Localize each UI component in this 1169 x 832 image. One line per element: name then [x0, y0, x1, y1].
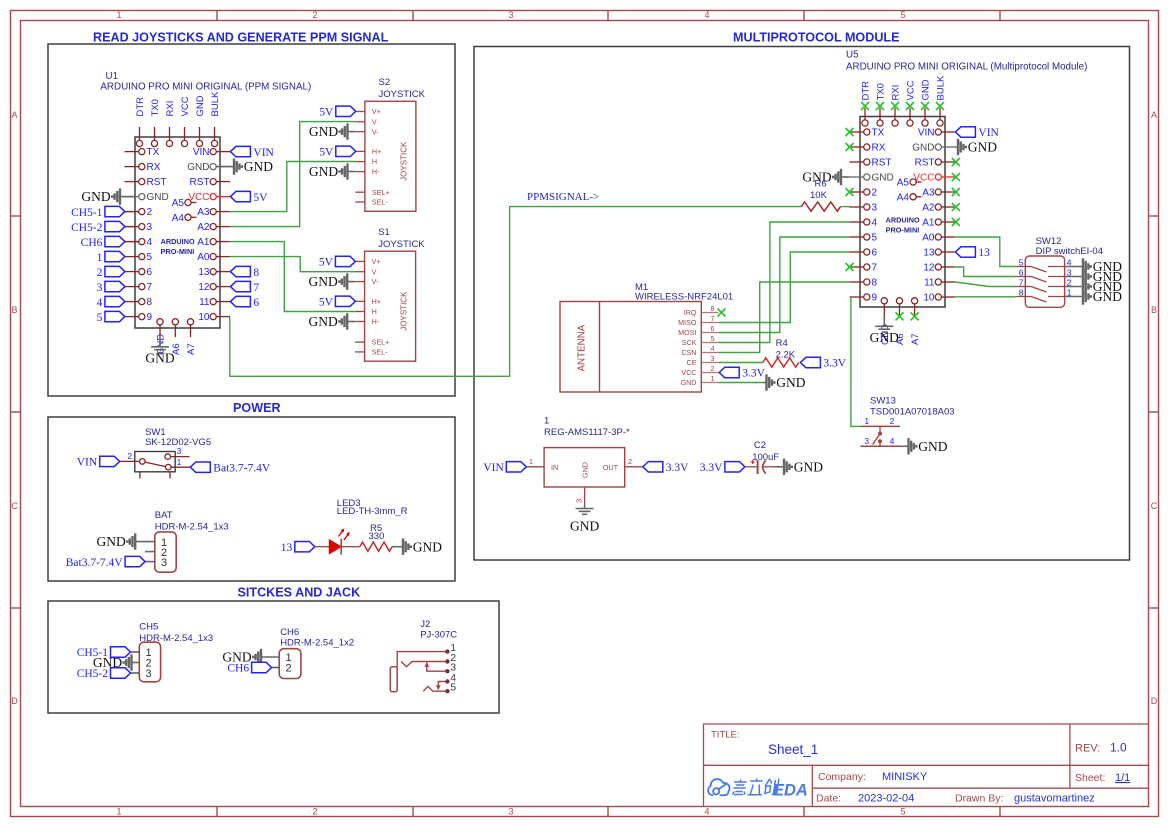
svg-text:V-: V-	[372, 127, 379, 136]
svg-text:5: 5	[450, 682, 456, 694]
svg-text:JOYSTICK: JOYSTICK	[399, 291, 408, 331]
svg-text:GND: GND	[581, 462, 590, 478]
no-connect marks U5 A6 A7	[896, 312, 904, 320]
svg-text:ANTENNA: ANTENNA	[577, 324, 588, 371]
svg-text:1: 1	[864, 416, 869, 426]
svg-text:3: 3	[508, 807, 513, 817]
switch SW1 body	[135, 452, 175, 472]
svg-text:A0: A0	[922, 233, 935, 244]
joystick S2 pins	[355, 111, 365, 113]
svg-text:4: 4	[711, 344, 715, 353]
svg-text:IRQ: IRQ	[684, 308, 697, 317]
svg-text:RST: RST	[872, 158, 892, 169]
ground flag at U1 pin GND (left)	[120, 196, 135, 198]
U5 bottom pins GND A6 A7	[881, 298, 887, 304]
svg-text:330: 330	[369, 531, 385, 542]
regulator pin 3 to ground	[584, 487, 586, 505]
net flag CH5-1	[125, 211, 139, 213]
svg-text:TSD001A07018A03: TSD001A07018A03	[870, 407, 955, 418]
svg-text:2: 2	[147, 207, 153, 218]
svg-text:1/1: 1/1	[1115, 772, 1130, 784]
svg-text:WIRELESS-NRF24L01: WIRELESS-NRF24L01	[635, 291, 733, 302]
svg-text:12: 12	[923, 263, 935, 274]
ground flag at BAT.1	[135, 541, 155, 543]
svg-text:PRO-MINI: PRO-MINI	[161, 247, 195, 256]
svg-text:GND: GND	[794, 459, 823, 474]
svg-text:Date:: Date:	[816, 793, 841, 805]
U1 pin A4	[191, 216, 197, 218]
net flag 3.3V at M1.VCC	[719, 367, 739, 377]
svg-text:3: 3	[508, 10, 513, 20]
svg-text:3: 3	[147, 222, 153, 233]
svg-text:HDR-M-2.54_1x3: HDR-M-2.54_1x3	[155, 522, 229, 533]
svg-text:MISO: MISO	[678, 318, 697, 327]
connector J2 sleeve	[390, 667, 397, 692]
svg-text:VIN: VIN	[483, 462, 504, 474]
svg-text:B: B	[1151, 305, 1157, 315]
svg-text:HDR-M-2.54_1x2: HDR-M-2.54_1x2	[280, 637, 354, 648]
svg-text:ARDUINO: ARDUINO	[161, 237, 195, 246]
ground flag at S1 V-	[347, 281, 355, 283]
ground flag at U5 pin GND (right)	[955, 146, 958, 148]
svg-text:B: B	[11, 305, 17, 315]
svg-text:A5: A5	[897, 178, 910, 189]
SW1 pole	[145, 462, 166, 467]
logo	[708, 779, 729, 795]
net flag 5V at S1 H+	[335, 296, 355, 306]
net flag Bat3.7-7.4V at SW1	[190, 462, 210, 472]
net flag 2	[105, 266, 125, 276]
svg-text:H+: H+	[372, 147, 381, 156]
net flag 1	[105, 251, 125, 261]
svg-text:5V: 5V	[319, 147, 334, 159]
svg-text:CH5: CH5	[139, 622, 158, 633]
svg-text:PPMSIGNAL->: PPMSIGNAL->	[527, 191, 599, 203]
svg-text:A3: A3	[922, 188, 935, 199]
svg-text:RXI: RXI	[891, 85, 902, 101]
ground flag at M1.GND	[763, 382, 767, 384]
U5 top pins DTR TX0 RXI VCC GND BULK with no-connect marks	[864, 108, 866, 120]
svg-text:VIN: VIN	[77, 457, 98, 469]
svg-text:LED-TH-3mm_R: LED-TH-3mm_R	[337, 506, 408, 517]
svg-text:GND: GND	[681, 378, 697, 387]
svg-text:A4: A4	[897, 193, 910, 204]
wire M1.CE to R4	[719, 362, 763, 364]
svg-text:A: A	[1151, 110, 1157, 120]
svg-text:REV:: REV:	[1075, 743, 1100, 755]
svg-text:GND: GND	[921, 79, 932, 100]
svg-text:CH5-2: CH5-2	[71, 222, 103, 234]
svg-text:1: 1	[116, 807, 121, 817]
svg-text:RST: RST	[915, 158, 935, 169]
svg-text:6: 6	[147, 267, 153, 278]
wire U5.9 to SW13.1	[851, 297, 861, 426]
net flag CH6 at CH6.2	[272, 667, 280, 669]
svg-text:8: 8	[147, 297, 153, 308]
svg-text:9: 9	[872, 293, 878, 304]
svg-text:5V: 5V	[319, 297, 334, 309]
svg-text:4: 4	[147, 237, 153, 248]
svg-text:GND: GND	[1093, 289, 1122, 304]
svg-text:V: V	[372, 267, 377, 276]
connector CH5 body	[139, 642, 160, 682]
no-connect mark M1 IRQ	[718, 309, 726, 317]
LED3 wire	[315, 546, 330, 548]
svg-text:U1: U1	[106, 71, 119, 82]
svg-text:8: 8	[711, 304, 715, 313]
svg-text:S2: S2	[379, 77, 391, 88]
svg-text:VIN: VIN	[193, 147, 210, 158]
svg-text:3: 3	[146, 668, 152, 680]
svg-text:H-: H-	[372, 167, 380, 176]
svg-text:2: 2	[97, 267, 103, 279]
svg-text:DIP switchEI-04: DIP switchEI-04	[1036, 246, 1103, 257]
svg-text:5: 5	[900, 10, 905, 20]
svg-text:DTR: DTR	[861, 81, 872, 101]
svg-text:VCC: VCC	[681, 368, 696, 377]
svg-text:3.3V: 3.3V	[823, 358, 846, 370]
SW12 pole 7-2	[1016, 286, 1031, 288]
SW12 pole 5-4	[1016, 266, 1031, 268]
svg-text:SEL+: SEL+	[372, 338, 390, 347]
ground flag at S1 H-	[347, 321, 355, 323]
regulator pin 1	[526, 466, 544, 468]
svg-text:JOYSTICK: JOYSTICK	[378, 239, 425, 250]
svg-text:4: 4	[704, 10, 709, 20]
svg-text:13: 13	[923, 248, 935, 259]
svg-text:A5: A5	[172, 198, 185, 209]
svg-text:H: H	[372, 157, 377, 166]
svg-text:GND: GND	[309, 164, 338, 179]
SW1 pin 1	[171, 466, 190, 468]
svg-text:GND: GND	[97, 534, 126, 549]
net flag 3.3V at C2	[725, 462, 745, 472]
SW12 pole 6-3	[1016, 276, 1031, 278]
svg-text:TX0: TX0	[876, 83, 887, 100]
net flag 5V at S1 V+	[335, 256, 355, 266]
switch SW13 body	[861, 425, 901, 427]
svg-text:POWER: POWER	[233, 401, 281, 415]
svg-text:JOYSTICK: JOYSTICK	[379, 89, 426, 100]
svg-text:5V: 5V	[319, 257, 334, 269]
svg-text:MINISKY: MINISKY	[882, 771, 928, 783]
regulator pin 2	[625, 466, 643, 468]
block frame: READ JOYSTICKS AND GENERATE PPM SIGNAL	[48, 44, 455, 396]
svg-text:2023-02-04: 2023-02-04	[858, 793, 914, 805]
svg-text:CH6: CH6	[227, 663, 249, 675]
svg-text:H+: H+	[372, 297, 381, 306]
svg-text:OUT: OUT	[603, 463, 619, 472]
wire U1.A0 to S1.V	[230, 257, 356, 272]
svg-text:11: 11	[199, 297, 210, 308]
svg-text:GND: GND	[918, 439, 947, 454]
svg-text:GND: GND	[776, 375, 805, 390]
net flag CH6	[125, 241, 139, 243]
svg-text:VCC: VCC	[180, 96, 191, 116]
U5 pin A5	[916, 181, 922, 183]
svg-text:SCK: SCK	[682, 338, 697, 347]
ground flag at SW12 pin 1	[1065, 296, 1083, 298]
svg-text:GND: GND	[309, 274, 338, 289]
svg-text:1: 1	[711, 374, 715, 383]
connector BAT body	[155, 532, 176, 572]
svg-text:3: 3	[97, 282, 103, 294]
IC U1 body	[135, 137, 220, 328]
svg-text:V+: V+	[372, 257, 381, 266]
svg-text:gustavomartinez: gustavomartinez	[1014, 793, 1095, 805]
ground flag at U1 pin GND (right)	[216, 166, 234, 168]
svg-text:1: 1	[177, 457, 182, 467]
svg-text:RST: RST	[190, 177, 210, 188]
svg-text:1: 1	[544, 416, 549, 427]
net flag 7	[230, 281, 250, 291]
svg-text:13: 13	[198, 267, 210, 278]
svg-text:V: V	[372, 117, 377, 126]
svg-text:CH6: CH6	[81, 237, 103, 249]
svg-text:H: H	[372, 307, 377, 316]
ground flag at CH5.2	[132, 662, 140, 664]
net flag 5V at U1 VCC	[230, 191, 250, 201]
svg-text:3.3V: 3.3V	[700, 462, 723, 474]
net flag 13 at U5	[955, 247, 975, 257]
net flag VIN at SW1	[100, 456, 120, 466]
wire U1.A3 to S2.H	[230, 162, 356, 212]
svg-text:EDA: EDA	[773, 781, 808, 799]
svg-text:GND: GND	[244, 159, 273, 174]
svg-text:2: 2	[286, 663, 292, 675]
svg-text:R6: R6	[815, 179, 827, 190]
svg-text:ARDUINO: ARDUINO	[886, 215, 920, 224]
ground flag at SW13.4	[900, 445, 909, 447]
svg-text:RST: RST	[147, 177, 167, 188]
svg-text:5: 5	[900, 807, 905, 817]
joystick S1 body	[365, 251, 416, 361]
svg-text:TX: TX	[872, 128, 885, 139]
svg-text:MOSI: MOSI	[678, 328, 696, 337]
svg-text:7: 7	[711, 314, 715, 323]
svg-text:SITCKES AND JACK: SITCKES AND JACK	[238, 586, 361, 600]
svg-text:ARDUINO PRO MINI ORIGINAL (PPM: ARDUINO PRO MINI ORIGINAL (PPM SIGNAL)	[100, 82, 311, 93]
svg-text:5: 5	[97, 312, 103, 324]
block frame: POWER	[48, 417, 455, 581]
wire U5.11 to SW12.7	[955, 282, 1016, 287]
svg-text:C2: C2	[754, 440, 766, 451]
U1 left pins	[125, 151, 139, 153]
net flag 5V at S2 H+	[336, 146, 356, 156]
svg-text:7: 7	[253, 282, 259, 294]
svg-text:IN: IN	[551, 463, 558, 472]
svg-text:5: 5	[872, 233, 878, 244]
svg-text:6: 6	[253, 297, 259, 309]
svg-text:8: 8	[253, 267, 259, 279]
svg-text:DTR: DTR	[135, 97, 146, 117]
ground flag at S2 H-	[348, 171, 356, 173]
svg-text:SEL-: SEL-	[372, 198, 389, 207]
svg-text:READ JOYSTICKS AND GENERATE PP: READ JOYSTICKS AND GENERATE PPM SIGNAL	[93, 31, 389, 45]
svg-text:2: 2	[872, 188, 878, 199]
svg-text:A0: A0	[197, 252, 210, 263]
connector CH6 body	[279, 649, 301, 679]
svg-text:GND: GND	[81, 189, 110, 204]
regulator body	[544, 448, 625, 487]
svg-text:2: 2	[890, 416, 895, 426]
wire U5.8 to M1.CSN	[719, 282, 850, 353]
svg-text:RX: RX	[872, 143, 886, 154]
svg-text:A3: A3	[197, 207, 210, 218]
ground flag at U5 pin GND (left)	[841, 176, 850, 178]
svg-text:A4: A4	[172, 213, 185, 224]
svg-text:PRO-MINI: PRO-MINI	[886, 225, 920, 234]
net flag 6	[230, 296, 250, 306]
svg-text:PJ-307C: PJ-307C	[420, 629, 457, 640]
svg-text:GND: GND	[187, 162, 209, 173]
svg-text:ARDUINO PRO MINI ORIGINAL (Mul: ARDUINO PRO MINI ORIGINAL (Multiprotocol…	[846, 62, 1087, 73]
svg-text:6: 6	[711, 324, 715, 333]
wire U1.10 PPM signal to R6	[230, 207, 802, 377]
net flag 4	[105, 296, 125, 306]
svg-text:D: D	[1151, 696, 1158, 706]
connector J2 pin 1 contact	[397, 652, 447, 667]
svg-text:Bat3.7-7.4V: Bat3.7-7.4V	[213, 462, 271, 474]
svg-text:6: 6	[1019, 267, 1024, 277]
U1 right pins	[216, 151, 230, 153]
svg-text:VIN: VIN	[253, 147, 274, 159]
wire U5.5 to M1.MOSI	[719, 237, 850, 333]
svg-text:3: 3	[864, 436, 869, 446]
svg-text:CH5-1: CH5-1	[71, 207, 103, 219]
svg-text:C: C	[1151, 501, 1158, 511]
svg-text:SW13: SW13	[870, 396, 896, 407]
svg-text:10: 10	[198, 312, 210, 323]
svg-text:VCC: VCC	[906, 80, 917, 100]
svg-text:A: A	[11, 110, 17, 120]
svg-text:7: 7	[872, 263, 878, 274]
svg-text:A1: A1	[922, 218, 935, 229]
svg-text:Sheet_1: Sheet_1	[768, 742, 818, 757]
wire U5.6 to M1.MISO	[719, 252, 850, 323]
svg-text:8: 8	[1019, 287, 1024, 297]
no-connect marks on U5 left pins TX RX 2 7	[846, 128, 854, 136]
ground flag at S2 V-	[348, 131, 356, 133]
net flag VIN at regulator	[506, 462, 526, 472]
svg-text:7: 7	[1019, 277, 1024, 287]
svg-text:A7: A7	[186, 343, 197, 355]
net flag 3.3V at R4	[800, 357, 820, 367]
IC U5 body	[860, 117, 945, 308]
svg-text:8: 8	[872, 278, 878, 289]
svg-text:GND: GND	[872, 173, 894, 184]
wire U5.4 to M1.SCK	[719, 222, 850, 343]
SW1 pin 3	[171, 456, 190, 458]
svg-text:11: 11	[924, 278, 935, 289]
svg-text:GND: GND	[968, 140, 997, 155]
net flag 8	[230, 266, 250, 276]
wire U5.10 to SW12.8	[955, 296, 1016, 298]
ground below U1	[159, 337, 161, 347]
svg-text:A1: A1	[197, 237, 210, 248]
svg-text:GND: GND	[195, 95, 206, 116]
ground below U5	[883, 316, 885, 326]
svg-text:5: 5	[711, 334, 715, 343]
svg-text:13: 13	[281, 542, 293, 554]
block frame: SITCKES AND JACK	[48, 601, 499, 713]
SW1 bottom stubs	[139, 472, 141, 479]
svg-text:JOYSTICK: JOYSTICK	[400, 141, 409, 181]
block frame: MULTIPROTOCOL MODULE	[474, 47, 1130, 561]
svg-text:SEL+: SEL+	[372, 188, 390, 197]
net flag CH5-2	[125, 226, 139, 228]
svg-text:2: 2	[127, 451, 132, 461]
net flag 3	[105, 281, 125, 291]
wire U1.A2 to S2.V	[230, 122, 356, 227]
svg-text:VIN: VIN	[978, 127, 999, 139]
svg-text:TITLE:: TITLE:	[711, 730, 740, 741]
SW12 pole 8-1	[1016, 296, 1031, 298]
U5 pin A4	[916, 196, 922, 198]
svg-text:1: 1	[116, 10, 121, 20]
svg-text:4: 4	[704, 807, 709, 817]
svg-text:MULTIPROTOCOL MODULE: MULTIPROTOCOL MODULE	[733, 31, 900, 45]
svg-text:S1: S1	[378, 227, 390, 238]
LED3 diode	[329, 540, 341, 554]
U1 pin A5	[191, 202, 197, 204]
net flag VIN at U1	[230, 146, 250, 156]
svg-text:REG-AMS1117-3P-*: REG-AMS1117-3P-*	[544, 427, 630, 438]
svg-text:2: 2	[312, 807, 317, 817]
svg-text:GND: GND	[413, 539, 442, 554]
U1 bottom pins GND A6 A7	[157, 319, 163, 325]
ground flag at CH6.1	[261, 656, 279, 658]
svg-text:1.0: 1.0	[1110, 741, 1127, 755]
svg-text:2: 2	[711, 364, 715, 373]
svg-text:12: 12	[198, 282, 210, 293]
svg-text:GND: GND	[147, 192, 169, 203]
U5 left pins	[850, 131, 864, 133]
ground flag at C2	[774, 466, 784, 468]
svg-text:A2: A2	[197, 222, 210, 233]
svg-text:C: C	[11, 501, 18, 511]
net flag Bat3.7-7.4V at BAT.3	[145, 561, 155, 563]
svg-text:H-: H-	[372, 317, 380, 326]
svg-text:4: 4	[872, 218, 878, 229]
ground flag at SW12 pin 2	[1065, 286, 1083, 288]
svg-text:3: 3	[711, 354, 715, 363]
BAT.2 stub	[145, 551, 155, 553]
svg-text:4: 4	[890, 436, 895, 446]
net flag CH5-2 at CH5.3	[131, 672, 140, 674]
svg-text:5V: 5V	[253, 192, 268, 204]
net flag CH5-1 at CH5.1	[131, 651, 140, 653]
svg-text:GND: GND	[912, 143, 934, 154]
svg-text:RXI: RXI	[165, 101, 176, 117]
svg-text:5: 5	[147, 252, 153, 263]
svg-text:2: 2	[312, 10, 317, 20]
J2 pin 4	[438, 682, 447, 688]
svg-text:GND: GND	[145, 351, 174, 366]
svg-text:2: 2	[628, 457, 632, 466]
U1 top pins DTR TX0 RXI VCC GND BULK	[139, 127, 141, 140]
svg-text:RX: RX	[147, 162, 161, 173]
svg-text:10K: 10K	[810, 190, 828, 201]
svg-text:U5: U5	[846, 50, 859, 61]
svg-text:6: 6	[872, 248, 878, 259]
svg-text:GND: GND	[309, 124, 338, 139]
svg-text:3.3V: 3.3V	[666, 462, 689, 474]
net flag 13 at LED3	[295, 542, 315, 552]
svg-text:Company:: Company:	[818, 771, 866, 783]
svg-text:5: 5	[1019, 257, 1024, 267]
svg-text:3: 3	[575, 499, 584, 503]
